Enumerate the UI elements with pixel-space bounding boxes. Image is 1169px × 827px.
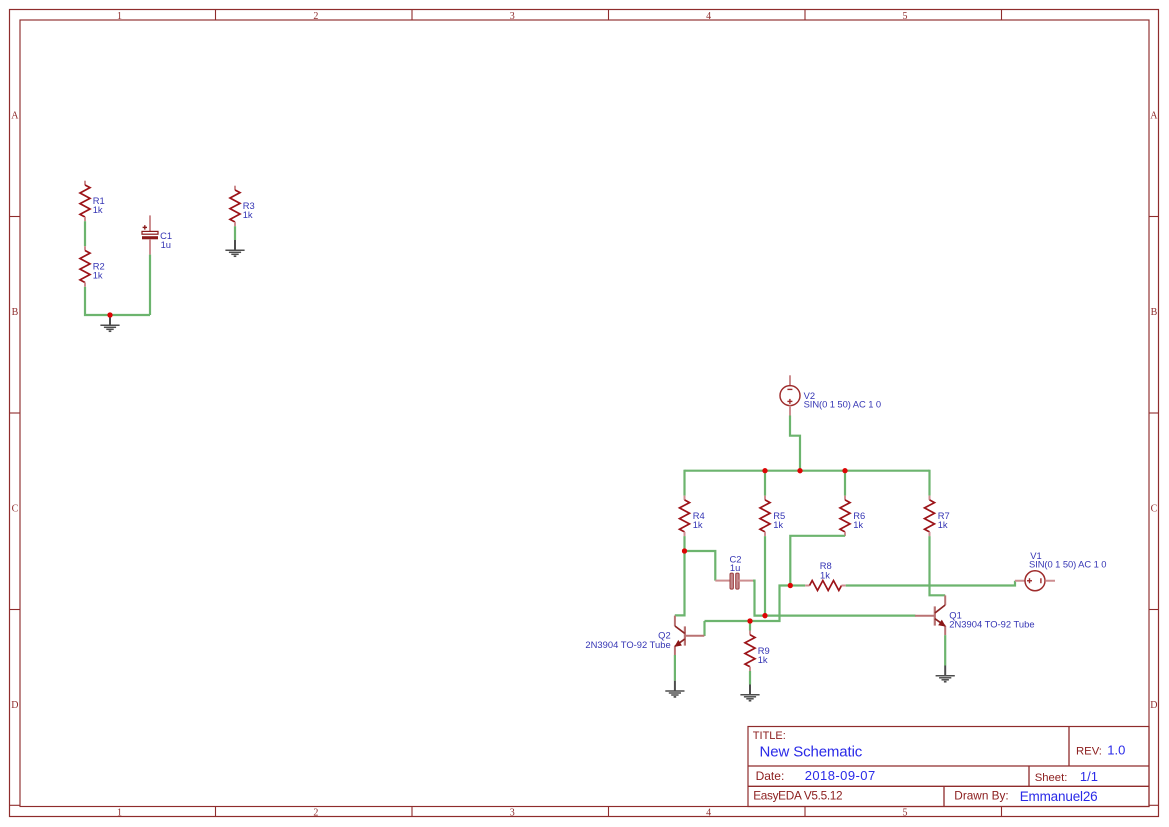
node R9 top — [747, 618, 752, 623]
wire C1 bottom — [149, 255, 151, 315]
svg-text:2: 2 — [313, 11, 318, 22]
wire V2 to bus — [790, 416, 800, 471]
node bus-R6 — [842, 468, 847, 473]
svg-text:3: 3 — [510, 807, 515, 818]
node bus-R5 — [762, 468, 767, 473]
svg-text:D: D — [11, 700, 18, 711]
ground G5 under Q1 — [936, 666, 955, 682]
svg-text:1k: 1k — [693, 519, 703, 530]
ground G4 under R9 — [740, 685, 759, 701]
voltage source V2 — [780, 375, 881, 415]
transistor Q1 — [915, 595, 1035, 635]
svg-text:1k: 1k — [853, 519, 863, 530]
svg-text:Sheet:: Sheet: — [1035, 772, 1068, 784]
svg-text:1.0: 1.0 — [1107, 743, 1125, 758]
capacitor C1 — [142, 215, 172, 254]
wire C2 right to node — [753, 581, 765, 616]
wire base row — [765, 614, 916, 616]
resistor R2 — [80, 246, 105, 287]
wire Q2 base riser — [703, 621, 705, 636]
resistor R9 — [745, 631, 770, 672]
svg-text:SIN(0 1 50) AC 1 0: SIN(0 1 50) AC 1 0 — [804, 399, 882, 410]
svg-text:B: B — [12, 307, 19, 318]
svg-text:Drawn By:: Drawn By: — [954, 789, 1008, 803]
wire R7 bottom to Q1 collector — [930, 536, 946, 595]
svg-text:1u: 1u — [730, 562, 740, 573]
wire bus to R4 — [683, 470, 685, 496]
wire Q1 emitter to ground — [944, 635, 946, 665]
svg-text:1: 1 — [117, 807, 122, 818]
title block — [748, 727, 1149, 807]
svg-text:Date:: Date: — [756, 769, 785, 783]
wire Q2 emitter to ground — [674, 655, 676, 681]
svg-text:REV:: REV: — [1076, 746, 1102, 758]
resistor R5 — [760, 496, 785, 536]
wire node to C2 left — [685, 551, 716, 581]
svg-text:1k: 1k — [773, 519, 783, 530]
ground G3 under Q2 — [665, 681, 684, 697]
svg-text:2N3904 TO-92 Tube: 2N3904 TO-92 Tube — [585, 639, 670, 650]
wire R3 to ground — [234, 226, 236, 240]
wire bus to R5 — [764, 471, 766, 496]
svg-text:1k: 1k — [758, 654, 768, 665]
node R6-R8 — [788, 583, 793, 588]
svg-text:5: 5 — [903, 11, 908, 22]
wire R2 to C1 bottom — [85, 287, 150, 315]
ground G2 — [225, 240, 244, 256]
resistor R3 — [230, 186, 255, 227]
voltage source V1 — [1015, 550, 1107, 591]
svg-text:1/1: 1/1 — [1080, 769, 1098, 784]
svg-text:4: 4 — [706, 807, 711, 818]
svg-text:3: 3 — [510, 11, 515, 22]
svg-text:1k: 1k — [938, 519, 948, 530]
wire R9 top stub — [749, 621, 751, 631]
resistor R1 — [80, 181, 105, 222]
wire lower row to R8 corner — [705, 586, 791, 622]
wire R9 bottom — [749, 671, 751, 685]
node R4-C2-Q2 — [682, 548, 687, 553]
svg-text:SIN(0 1 50) AC 1 0: SIN(0 1 50) AC 1 0 — [1029, 558, 1107, 569]
svg-text:A: A — [1150, 111, 1158, 122]
svg-text:C: C — [12, 504, 19, 515]
capacitor C2 — [715, 553, 753, 589]
svg-text:C: C — [1151, 504, 1158, 515]
svg-text:1u: 1u — [161, 239, 171, 250]
wire R6 bottom jog — [790, 536, 845, 586]
svg-text:2018-09-07: 2018-09-07 — [805, 768, 876, 783]
wire bus to R7 — [928, 470, 930, 496]
wire bus to R6 — [844, 471, 846, 496]
svg-text:1: 1 — [117, 11, 122, 22]
svg-text:B: B — [1151, 307, 1158, 318]
resistor R4 — [680, 496, 705, 536]
wire node to R8 — [790, 584, 805, 586]
svg-text:A: A — [11, 111, 19, 122]
resistor R6 — [840, 496, 865, 536]
junction dots — [107, 312, 112, 317]
node junction left — [107, 312, 112, 317]
svg-text:Emmanuel26: Emmanuel26 — [1020, 789, 1098, 804]
svg-text:4: 4 — [706, 11, 711, 22]
wire R5 bottom — [764, 536, 766, 616]
wire R8 to V1 — [846, 581, 1015, 586]
node bus-V2 — [797, 468, 802, 473]
ground G1 — [100, 315, 119, 331]
node R5-C2 — [762, 613, 767, 618]
resistor R7 — [925, 496, 950, 536]
svg-text:2: 2 — [313, 807, 318, 818]
transistor Q2 — [585, 616, 704, 655]
svg-text:D: D — [1150, 700, 1157, 711]
svg-text:1k: 1k — [93, 270, 103, 281]
resistor R8 — [805, 560, 846, 590]
svg-text:2N3904 TO-92 Tube: 2N3904 TO-92 Tube — [949, 618, 1034, 629]
svg-text:5: 5 — [903, 807, 908, 818]
svg-text:TITLE:: TITLE: — [753, 730, 786, 742]
svg-text:EasyEDA V5.5.12: EasyEDA V5.5.12 — [753, 788, 842, 802]
wire top bus — [685, 470, 930, 472]
svg-text:1k: 1k — [820, 569, 830, 580]
wire R1-R2 — [84, 221, 86, 246]
wire node down to Q2 collector — [675, 551, 685, 615]
wire R4 bottom — [683, 536, 685, 551]
svg-text:New Schematic: New Schematic — [760, 744, 863, 761]
svg-text:1k: 1k — [93, 204, 103, 215]
svg-text:1k: 1k — [243, 209, 253, 220]
